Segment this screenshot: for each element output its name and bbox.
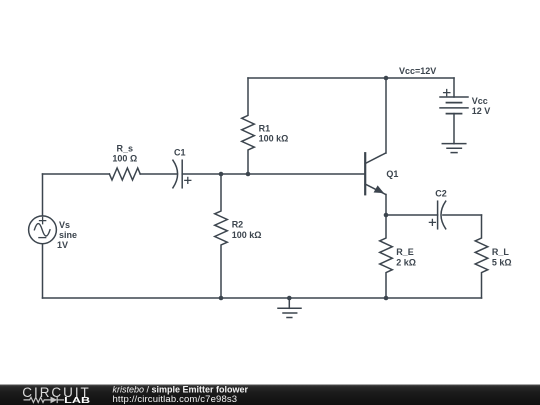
wire: C1 right plate to Q1 base — [182, 173, 365, 175]
svg-text:C1: C1 — [174, 147, 186, 157]
wire: R_s to C1 left plate — [140, 173, 177, 175]
wire: Q1 emitter down to output node — [385, 195, 387, 216]
wire: bottom ground rail — [43, 297, 482, 299]
node: R1 bottom junction — [246, 172, 251, 177]
svg-text:Vcc: Vcc — [472, 96, 488, 106]
wire: emitter node to C2 left plate — [386, 214, 438, 216]
svg-text:Vcc=12V: Vcc=12V — [399, 66, 436, 76]
label R2 name and value — [232, 220, 262, 240]
svg-text:LAB: LAB — [64, 396, 90, 405]
label R_s name and value — [112, 144, 137, 164]
label Vcc battery name and value — [472, 96, 491, 116]
svg-text:12 V: 12 V — [472, 106, 491, 116]
ground: battery negative terminal — [442, 144, 466, 153]
resistor R1 — [242, 78, 255, 174]
svg-text:100 kΩ: 100 kΩ — [259, 133, 289, 143]
footer bar — [0, 385, 540, 405]
label C1 — [174, 147, 186, 157]
wire: Q1 collector to Vcc rail — [385, 78, 387, 153]
svg-text:http://circuitlab.com/c7e98s3: http://circuitlab.com/c7e98s3 — [113, 394, 238, 405]
svg-text:R2: R2 — [232, 220, 244, 230]
wire: top Vcc rail — [248, 77, 454, 79]
node: emitter output junction — [384, 213, 389, 218]
footer title text — [113, 385, 249, 405]
label C2 — [435, 188, 447, 198]
svg-text:2 kΩ: 2 kΩ — [396, 257, 416, 267]
node: R2 bottom junction — [219, 296, 224, 301]
node: R_E bottom junction — [384, 296, 389, 301]
svg-text:Q1: Q1 — [386, 169, 398, 179]
wire: left vertical above Vs — [42, 174, 44, 216]
label Q1 — [386, 169, 398, 179]
label net Vcc=12V — [399, 66, 436, 76]
capacitor C2 — [429, 201, 445, 229]
node: ground junction — [287, 296, 292, 301]
resistor R_E — [380, 215, 393, 298]
resistor R_L — [475, 215, 488, 298]
label R_E name and value — [396, 247, 416, 267]
svg-text:R1: R1 — [259, 123, 271, 133]
footer logo CircuitLab — [22, 385, 90, 405]
label R_L name and value — [492, 247, 512, 267]
svg-text:R_s: R_s — [117, 144, 134, 154]
svg-text:1V: 1V — [57, 240, 68, 250]
resistor R_s — [109, 168, 140, 180]
svg-text:sine: sine — [59, 230, 77, 240]
resistor R2 — [215, 174, 228, 298]
svg-text:R_E: R_E — [396, 247, 414, 257]
svg-text:Vs: Vs — [59, 220, 70, 230]
label R1 name and value — [259, 123, 289, 143]
label Vs name and value — [57, 220, 77, 250]
ground: bottom rail — [278, 298, 301, 318]
battery Vcc — [440, 78, 468, 144]
node: collector at Vcc rail junction — [384, 76, 389, 81]
wire: C2 right plate to R_L corner — [443, 214, 482, 216]
voltage source Vs — [29, 216, 57, 244]
svg-text:100 kΩ: 100 kΩ — [232, 230, 262, 240]
wire: left vertical below Vs — [42, 244, 44, 298]
svg-text:R_L: R_L — [492, 247, 510, 257]
svg-text:5 kΩ: 5 kΩ — [492, 257, 512, 267]
transistor Q1 — [365, 153, 386, 195]
svg-text:100 Ω: 100 Ω — [112, 154, 137, 164]
capacitor C1 — [173, 160, 191, 188]
wire: input node from Vs corner to R_s — [43, 173, 110, 175]
node: C1/R2/base junction — [219, 172, 224, 177]
svg-text:C2: C2 — [435, 188, 447, 198]
